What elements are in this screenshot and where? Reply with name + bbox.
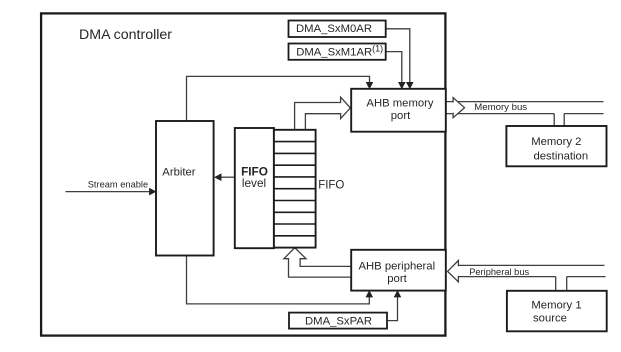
svg-text:AHB peripheral: AHB peripheral [358, 261, 435, 273]
svg-text:Arbiter: Arbiter [162, 166, 196, 178]
svg-text:level: level [242, 176, 266, 190]
svg-text:Memory 2: Memory 2 [531, 136, 581, 148]
svg-text:Stream enable: Stream enable [88, 180, 148, 190]
svg-text:source: source [533, 313, 567, 325]
svg-text:AHB memory: AHB memory [366, 97, 434, 109]
svg-text:Peripheral bus: Peripheral bus [469, 267, 529, 277]
svg-text:port: port [387, 273, 407, 285]
svg-text:Memory bus: Memory bus [474, 102, 527, 113]
svg-text:DMA_SxPAR: DMA_SxPAR [305, 316, 372, 328]
svg-text:Memory 1: Memory 1 [531, 300, 581, 312]
svg-text:FIFO: FIFO [318, 180, 344, 192]
svg-text:port: port [391, 110, 411, 122]
svg-text:DMA_SxM0AR: DMA_SxM0AR [296, 23, 372, 35]
svg-text:destination: destination [533, 150, 588, 162]
svg-text:DMA_SxM1AR(1): DMA_SxM1AR(1) [296, 44, 383, 59]
svg-text:DMA controller: DMA controller [79, 27, 172, 43]
